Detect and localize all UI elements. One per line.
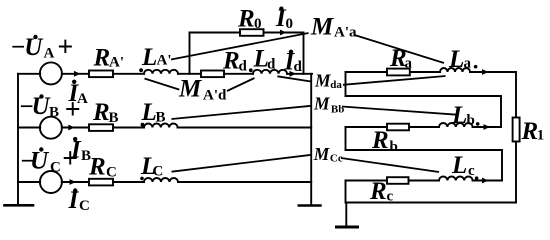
label coupling MBb: [313, 94, 344, 116]
resistor Rc: [387, 177, 409, 184]
voltage source UB: [40, 117, 62, 139]
label inductor LA': [141, 44, 172, 71]
label resistor R1: [521, 118, 545, 145]
label source UC: [21, 143, 79, 175]
wire rotor a bottom return: [346, 96, 502, 127]
coupling line MA'd right: [227, 78, 255, 91]
svg-text:Cc: Cc: [330, 152, 343, 164]
svg-text:0: 0: [286, 16, 294, 32]
label resistor Rb: [371, 127, 398, 155]
svg-text:a: a: [405, 56, 413, 72]
inductor LC: [144, 178, 178, 182]
arrow current ic: [482, 178, 489, 184]
inductor LA': [144, 70, 178, 74]
svg-text:R: R: [369, 178, 387, 205]
coupling line MA'd left: [145, 79, 180, 90]
svg-text:A: A: [44, 46, 55, 62]
svg-text:C: C: [153, 164, 164, 180]
ground rotor bar: [337, 226, 358, 229]
dot polarity LA': [139, 68, 143, 72]
wire phase B from bus to source: [18, 127, 40, 129]
coupling line MCc left: [172, 155, 312, 172]
svg-text:A': A': [109, 55, 124, 71]
inductor LB: [144, 124, 178, 128]
inductor Lc: [439, 177, 473, 181]
wire R0 branch left vertical: [189, 33, 191, 74]
wire phase A LA' to Rd: [178, 73, 253, 75]
svg-text:+: +: [65, 95, 81, 126]
svg-text:b: b: [467, 113, 475, 129]
svg-text:R: R: [93, 45, 111, 72]
arrow current IB: [68, 125, 75, 131]
arrow current I0: [280, 30, 287, 36]
coupling line MA'a right: [355, 35, 445, 63]
svg-text:da: da: [330, 79, 342, 91]
svg-text:L: L: [448, 46, 464, 73]
arrow current IC: [70, 179, 77, 185]
label current IC: [68, 187, 90, 214]
voltage source UC: [40, 171, 62, 193]
resistor RC: [89, 179, 113, 186]
dot polarity Lb: [476, 122, 480, 126]
label resistor Rd: [222, 48, 248, 75]
label current I0: [275, 5, 293, 32]
resistor Rd: [201, 71, 224, 78]
label coupling MA'd: [178, 76, 227, 104]
ground left bus bar: [5, 204, 34, 207]
resistor R1: [513, 118, 520, 142]
wire rotor a top: [346, 71, 441, 73]
label inductor La: [448, 46, 472, 73]
svg-text:L: L: [141, 99, 157, 126]
resistor RA': [89, 71, 113, 78]
resistor R0: [240, 29, 264, 36]
svg-text:A': A': [157, 53, 172, 69]
wire phase A from bus to source: [18, 73, 40, 75]
svg-text:L: L: [141, 44, 157, 71]
inductor Ld: [253, 70, 287, 74]
svg-text:C: C: [106, 165, 117, 181]
arrow current ia: [482, 69, 489, 75]
wire rotor b row: [346, 126, 440, 128]
wire R0 branch right vertical: [303, 33, 305, 74]
label source UA: [11, 32, 73, 63]
label coupling MA'a: [310, 14, 357, 41]
dot polarity Ld: [249, 68, 253, 72]
dot polarity LC: [140, 177, 144, 181]
wire rotor c row: [346, 180, 440, 182]
resistor Rb: [387, 124, 409, 131]
label current IA: [68, 80, 89, 107]
wire rotor a left vertical: [345, 72, 347, 96]
label current IB: [70, 137, 91, 165]
svg-text:d: d: [267, 57, 276, 73]
inductor Lb: [439, 123, 473, 127]
svg-text:M: M: [313, 94, 331, 114]
wire rotor b left vertical: [345, 127, 347, 150]
wire rotor b coil to corner: [473, 126, 501, 128]
ground bus bar: [299, 204, 321, 207]
dot polarity La: [474, 65, 478, 69]
svg-text:1: 1: [537, 128, 545, 144]
arrow current IA: [74, 71, 81, 77]
svg-text:d: d: [294, 59, 303, 75]
label resistor Ra: [389, 45, 413, 72]
label inductor Lc: [451, 152, 475, 179]
svg-text:A'a: A'a: [334, 25, 357, 41]
label current Id: [284, 49, 303, 76]
svg-text:L: L: [451, 152, 467, 179]
label source UB: [20, 93, 81, 126]
coupling line Mda left: [277, 76, 311, 81]
resistor Ra: [387, 69, 410, 76]
coupling line MCc right: [341, 158, 439, 172]
svg-text:M: M: [313, 144, 331, 164]
wire phase C source to coil: [62, 181, 144, 183]
svg-text:M: M: [178, 76, 202, 103]
wire rotor b bottom return: [346, 150, 503, 181]
wire rotor a coil to corner: [470, 72, 516, 118]
wire R1 to bottom: [515, 142, 517, 203]
wire phase C from bus to source: [18, 181, 40, 183]
svg-text:L: L: [451, 102, 467, 129]
svg-text:U: U: [30, 148, 50, 175]
svg-text:M: M: [314, 71, 332, 91]
wire phase B coil to bus: [178, 127, 312, 129]
svg-text:Bb: Bb: [331, 103, 344, 115]
svg-text:A'd: A'd: [203, 87, 227, 103]
wire phase A source to RA': [62, 73, 144, 75]
svg-text:+: +: [57, 32, 73, 63]
label resistor RC: [88, 154, 117, 181]
svg-text:−: −: [11, 34, 25, 61]
label inductor LB: [141, 99, 166, 126]
coupling line MBb left: [172, 106, 312, 119]
svg-text:b: b: [390, 139, 398, 155]
label resistor RB: [92, 99, 119, 126]
label coupling MCc: [313, 144, 343, 165]
voltage source UA: [40, 62, 62, 84]
wire phase A Ld to bus: [287, 73, 312, 75]
wire phase C coil to bus: [178, 181, 311, 183]
dot polarity Lc: [475, 176, 479, 180]
label coupling Mda: [314, 71, 342, 92]
svg-text:c: c: [468, 163, 475, 179]
svg-text:a: a: [464, 56, 472, 72]
label inductor Ld: [253, 46, 277, 73]
coupling line MBb right: [342, 107, 459, 115]
resistor RB: [89, 124, 113, 131]
svg-text:C: C: [79, 198, 90, 214]
arrow current ib: [484, 124, 491, 130]
coupling line MA'a left: [171, 33, 309, 60]
label inductor LC: [140, 153, 163, 180]
svg-text:c: c: [387, 189, 394, 205]
ground rotor stub: [345, 203, 347, 227]
svg-text:0: 0: [254, 16, 262, 32]
svg-text:R: R: [237, 6, 255, 33]
svg-text:R: R: [92, 99, 110, 126]
inductor La: [440, 68, 470, 72]
label resistor R0: [237, 6, 262, 33]
svg-text:R: R: [88, 154, 106, 181]
svg-text:B: B: [49, 105, 59, 121]
svg-text:B: B: [156, 110, 166, 126]
coupling line Mda right: [343, 76, 446, 85]
wire rotor bottom: [346, 202, 517, 204]
svg-text:M: M: [310, 14, 334, 41]
svg-text:R: R: [222, 48, 240, 75]
svg-text:+: +: [62, 143, 78, 174]
svg-text:R: R: [371, 127, 389, 154]
wire rotor c coil to corner: [473, 180, 502, 182]
label resistor RA': [93, 45, 125, 72]
arrow current Id: [290, 71, 297, 77]
node neutral bus: [310, 74, 312, 204]
wire left bus: [17, 74, 19, 204]
label inductor Lb: [451, 102, 475, 129]
svg-text:B: B: [109, 110, 119, 126]
dot polarity LB: [141, 123, 145, 127]
label resistor Rc: [369, 178, 394, 205]
wire rotor c left vertical: [345, 181, 347, 203]
wire phase B source to coil: [62, 127, 144, 129]
svg-text:d: d: [239, 59, 248, 75]
wire R0 branch horizontal: [190, 32, 304, 34]
svg-text:C: C: [50, 160, 61, 176]
svg-text:R: R: [521, 118, 539, 145]
